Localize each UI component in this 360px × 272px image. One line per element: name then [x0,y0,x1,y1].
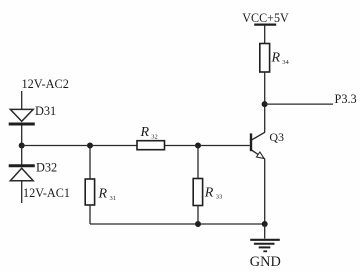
junction: base net at R31 top [87,143,93,149]
resistor R32 [137,141,165,150]
svg-text:12V-AC1: 12V-AC1 [23,186,70,200]
svg-text:D31: D31 [35,104,56,118]
svg-text:R: R [271,50,281,65]
junction: ground net at R33 bottom [195,221,201,227]
power rail bar VCC [254,24,276,26]
junction: base net at R33 top [195,143,201,149]
wire: D31 cathode to diode midpoint node [21,125,23,145]
diode D31 [9,109,35,124]
junction: collector node to P3.3 [262,101,268,107]
wire: node down to D32 cathode [21,146,23,165]
label R33 [204,185,222,200]
label R31 [98,186,117,202]
label R32 [140,125,158,141]
junction: diode midpoint node [19,143,25,149]
svg-text:31: 31 [110,195,117,202]
wire: D32 anode to 12V-AC1 input [21,181,23,203]
wire: 12V-AC2 input to D31 anode [21,91,23,110]
wire: ground net to ground symbol [264,224,266,239]
resistor R34 [260,44,270,73]
transistor Q3 [251,132,265,159]
svg-text:Q3: Q3 [269,130,284,144]
svg-text:R: R [204,185,214,200]
diode D32 [9,166,35,181]
wire: R34 bottom to collector node [264,72,266,132]
svg-text:12V-AC2: 12V-AC2 [22,77,69,91]
label R34 [271,50,290,66]
svg-text:P3.3: P3.3 [335,92,357,106]
svg-text:33: 33 [216,194,223,201]
svg-text:R: R [140,125,150,140]
wire: base net horizontal from diode node to Q3 base [22,145,250,147]
wire: Q3 emitter to ground net [264,159,266,224]
resistor R33 [193,146,202,225]
svg-text:32: 32 [151,134,158,141]
svg-text:D32: D32 [36,160,57,174]
svg-text:R: R [98,186,108,201]
svg-text:34: 34 [282,59,289,66]
resistor R31 [85,146,94,225]
wire: VCC bar to R34 top [264,25,266,44]
junction: emitter at ground net [262,221,268,227]
wire: collector node to P3.3 terminal [265,103,333,105]
wire: ground net horizontal [90,223,265,225]
svg-text:VCC+5V: VCC+5V [242,11,289,25]
ground [250,240,280,252]
svg-text:GND: GND [250,254,281,270]
